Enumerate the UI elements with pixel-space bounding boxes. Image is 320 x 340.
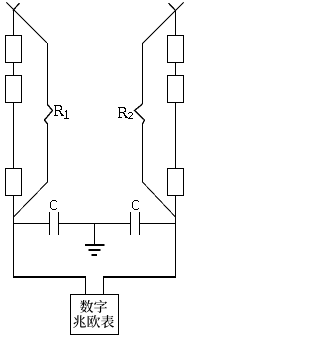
label R1: letter R (54, 105, 64, 116)
wire: bus middle segment (59, 223, 130, 225)
wire: left column box3 down to bottom corner (13, 196, 15, 278)
label C (left capacitor) (50, 200, 57, 210)
resistor box 3 (right divider) (168, 169, 184, 196)
wire: R1 diagonal down to left bus corner (14, 182, 48, 217)
wire: bus right segment (139, 223, 176, 225)
wire: right column top (crossing to box1) (175, 11, 177, 36)
wire: R2 diagonal down to right bus corner (143, 182, 176, 217)
resistor R1 (zigzag mark) (45, 105, 53, 125)
capacitor C (left) plates (49, 212, 51, 235)
meter text line 1: 数字 (80, 300, 107, 313)
wire: R2 vertical upper (142, 44, 144, 104)
label R2: subscript 2 (128, 112, 133, 119)
capacitor C (right) plates (130, 212, 132, 235)
wire: right meter lead down (103, 276, 105, 294)
wire: left between box2 and box3 (13, 103, 15, 169)
node: right top terminal crossing (169, 3, 184, 11)
wire: R2 vertical lower (142, 124, 144, 182)
label R1: subscript 1 (64, 110, 69, 119)
wire: R1 vertical lower (47, 124, 49, 182)
label C (right capacitor) (132, 200, 139, 210)
resistor R2 (zigzag mark) (135, 104, 145, 124)
resistor box 2 (left divider) (6, 76, 22, 103)
wire: left bottom horizontal to meter (13, 276, 86, 278)
ground symbol (85, 224, 105, 256)
digital megohmmeter box U1 (71, 295, 119, 335)
meter text line 2: 兆欧表 (73, 315, 114, 328)
wire: R2 diagonal (top-right terminal to R2 column) (142, 11, 176, 45)
resistor box 1 (left divider) (6, 36, 22, 63)
resistor box 3 (left divider) (6, 169, 22, 196)
wire: right column box3 down to bottom corner (175, 196, 177, 278)
wire: bus left segment (14, 223, 51, 225)
wire: left meter lead down (85, 276, 87, 294)
wire: right between box1 and box2 (175, 63, 177, 76)
wire: right bottom horizontal to meter (103, 276, 176, 278)
resistor box 2 (right divider) (168, 76, 184, 103)
wire: R1 vertical upper (47, 43, 49, 105)
wire: left between box1 and box2 (13, 63, 15, 76)
node: left top terminal crossing (7, 3, 20, 11)
label R2: letter R (118, 107, 128, 118)
wire: left column top (crossing to box1) (13, 10, 15, 36)
resistor box 1 (right divider) (168, 36, 184, 63)
wire: R1 diagonal (top-left terminal to R1 column) (14, 10, 48, 44)
wire: right between box2 and box3 (175, 103, 177, 169)
